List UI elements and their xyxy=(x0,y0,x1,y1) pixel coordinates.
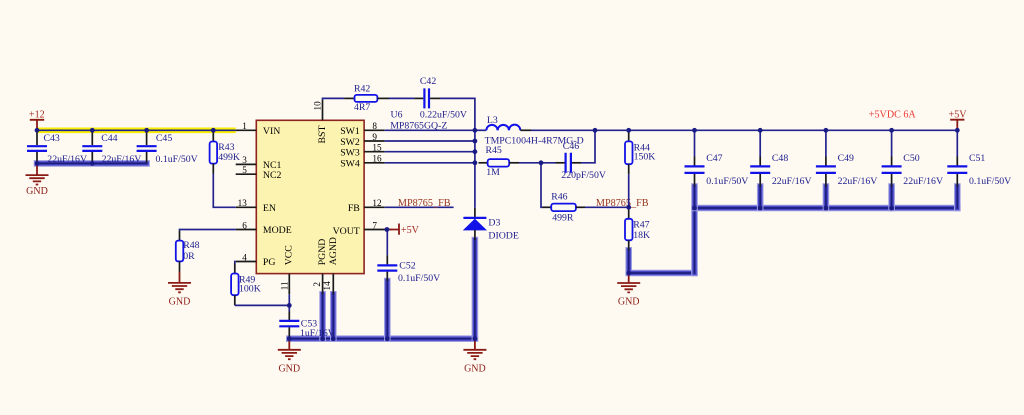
svg-text:SW1: SW1 xyxy=(340,126,360,137)
pin 5 NC2 xyxy=(236,165,282,181)
svg-text:14: 14 xyxy=(322,281,332,291)
svg-text:C47: C47 xyxy=(706,153,722,164)
wire R44 to FB node xyxy=(628,174,630,207)
+12 input net yellow highlight wire xyxy=(36,128,235,134)
svg-text:R47: R47 xyxy=(633,220,649,231)
GND thick: C50 stub xyxy=(888,187,895,209)
node C43 bottom bus xyxy=(35,161,40,166)
node AGND bus xyxy=(331,336,336,341)
svg-text:FB: FB xyxy=(348,203,360,214)
wire R42 to C42 xyxy=(389,97,414,99)
pin 4 PG xyxy=(236,252,276,268)
pin 3 NC1 xyxy=(236,155,282,171)
ground G5 under R47 xyxy=(617,275,640,308)
svg-text:1M: 1M xyxy=(486,167,500,178)
ground G1 under C43 xyxy=(26,166,49,198)
wire FB pin xyxy=(385,206,454,208)
wire SW1 to riser xyxy=(385,129,475,131)
ground G2 under R48 xyxy=(168,272,191,308)
svg-text:D3: D3 xyxy=(488,218,500,229)
pin 6 MODE xyxy=(236,220,292,236)
svg-text:10: 10 xyxy=(312,101,322,111)
capacitor C52 xyxy=(377,255,440,284)
GND net thick highlight: left bus xyxy=(37,160,147,167)
ground G4 under D3 column xyxy=(463,341,486,374)
ground G3 under bottom bus left xyxy=(278,341,301,374)
node SW2 riser xyxy=(473,139,478,144)
svg-text:GND: GND xyxy=(169,297,191,308)
node C49 top xyxy=(824,128,829,133)
capacitor C45 xyxy=(137,131,198,165)
capacitor C48 xyxy=(750,130,811,187)
resistor R46 xyxy=(543,192,586,224)
node C45 top xyxy=(144,128,149,133)
node C51/+5V xyxy=(955,128,960,133)
pin 1 VIN xyxy=(236,121,281,137)
svg-text:150K: 150K xyxy=(634,151,656,162)
svg-text:4R7: 4R7 xyxy=(354,102,370,113)
node D3 bus xyxy=(473,336,478,341)
svg-text:1: 1 xyxy=(242,121,247,131)
svg-text:SW4: SW4 xyxy=(340,158,360,169)
svg-text:GND: GND xyxy=(618,297,640,308)
svg-text:499K: 499K xyxy=(218,152,240,163)
svg-text:C49: C49 xyxy=(838,153,854,164)
svg-text:GND: GND xyxy=(278,363,300,374)
node C48 top xyxy=(758,128,763,133)
wire C46 node down to R46 xyxy=(541,163,543,208)
wire R45 to C46 node xyxy=(519,162,556,164)
power port +5V top right xyxy=(949,110,968,131)
svg-text:22uF/16V: 22uF/16V xyxy=(102,154,142,165)
svg-text:GND: GND xyxy=(26,186,48,197)
wire VCC column xyxy=(288,294,290,311)
svg-text:8: 8 xyxy=(372,121,377,131)
svg-text:VIN: VIN xyxy=(263,126,280,137)
svg-text:DIODE: DIODE xyxy=(488,231,518,242)
resistor R43 xyxy=(210,131,240,173)
svg-text:R42: R42 xyxy=(354,83,370,94)
wire +12 rail xyxy=(36,129,235,131)
wire PG to R49 xyxy=(234,262,237,264)
GND thick: C51 stub xyxy=(954,187,961,209)
wire SW3 to riser xyxy=(385,151,475,153)
svg-text:MP8765_FB: MP8765_FB xyxy=(596,198,649,209)
node C52 bus xyxy=(385,336,390,341)
svg-text:2: 2 xyxy=(312,282,322,287)
svg-text:7: 7 xyxy=(372,220,377,230)
power port +12 xyxy=(29,110,45,131)
node R44 top xyxy=(626,128,631,133)
svg-text:22uF/16V: 22uF/16V xyxy=(47,154,87,165)
svg-text:11: 11 xyxy=(279,281,289,290)
svg-text:22uF/16V: 22uF/16V xyxy=(903,176,943,187)
svg-text:NC2: NC2 xyxy=(263,170,282,181)
IC U6 body xyxy=(256,120,364,273)
node R43 top xyxy=(211,128,216,133)
svg-text:PG: PG xyxy=(263,257,276,268)
node C44 top xyxy=(90,128,95,133)
capacitor C44 xyxy=(82,131,141,165)
svg-text:SW2: SW2 xyxy=(340,137,360,148)
wire VOUT down to C52 xyxy=(386,230,388,256)
diode D3 xyxy=(463,208,518,242)
pin 13 EN xyxy=(236,198,276,214)
pin 14 AGND xyxy=(322,237,339,294)
resistor R42 xyxy=(344,83,389,113)
node +12/C43 xyxy=(35,128,40,133)
node C44 bottom bus xyxy=(90,161,95,166)
GND thick: C48 stub xyxy=(757,187,764,209)
svg-text:EN: EN xyxy=(263,203,276,214)
svg-text:VOUT: VOUT xyxy=(333,226,360,237)
svg-text:22uF/16V: 22uF/16V xyxy=(772,176,812,187)
capacitor C42 xyxy=(414,76,467,120)
pin 9 SW2 xyxy=(340,132,385,148)
U6 designator and value xyxy=(390,110,447,132)
node R47 bottom xyxy=(626,271,631,276)
node FB junction xyxy=(626,205,631,210)
pin 7 VOUT xyxy=(333,220,385,237)
node C47 top xyxy=(692,128,697,133)
resistor R47 xyxy=(625,207,650,250)
capacitor C43 xyxy=(27,131,87,165)
GND thick: R47 bottom and link to output cap bus xyxy=(629,250,695,273)
pin 16 SW4 xyxy=(340,154,385,170)
svg-text:C42: C42 xyxy=(420,76,436,87)
svg-text:+5V: +5V xyxy=(949,110,968,121)
GND thick: D3 column xyxy=(472,240,479,339)
power port +5V at VOUT xyxy=(390,224,420,237)
pin 11 VCC xyxy=(279,245,294,294)
wire SW riser down to D3 xyxy=(474,130,476,208)
svg-text:AGND: AGND xyxy=(328,237,339,265)
wire C46 to rail riser xyxy=(581,130,595,163)
node SW3 riser xyxy=(473,149,478,154)
capacitor C49 xyxy=(816,130,877,187)
node SW1/L3 riser xyxy=(473,128,478,133)
svg-text:6: 6 xyxy=(242,220,247,230)
svg-text:0.1uF/50V: 0.1uF/50V xyxy=(398,273,440,284)
svg-text:0.1uF/50V: 0.1uF/50V xyxy=(706,176,748,187)
svg-text:R48: R48 xyxy=(183,240,199,251)
pin 12 FB xyxy=(348,198,385,214)
svg-text:4: 4 xyxy=(242,252,247,262)
node VOUT/+5V xyxy=(385,227,390,232)
svg-text:VCC: VCC xyxy=(283,245,294,265)
node R45/C46 xyxy=(539,160,544,165)
svg-text:L3: L3 xyxy=(487,115,498,126)
svg-text:R46: R46 xyxy=(551,192,567,203)
GND net thick highlight: bottom bus xyxy=(289,335,475,342)
resistor R45 xyxy=(479,145,520,178)
GND thick: PGND column xyxy=(319,294,326,338)
svg-text:C43: C43 xyxy=(44,133,60,144)
svg-text:C50: C50 xyxy=(903,153,919,164)
capacitor C51 xyxy=(947,130,1011,187)
svg-text:22uF/16V: 22uF/16V xyxy=(838,176,878,187)
wire VOUT node xyxy=(385,229,392,231)
svg-text:18K: 18K xyxy=(633,230,650,241)
node C48 bus xyxy=(758,206,763,211)
wire MODE to R48 xyxy=(180,230,236,231)
GND thick: C47 stub xyxy=(691,187,698,209)
resistor R49 xyxy=(231,264,261,306)
node C46 riser top xyxy=(593,128,598,133)
svg-text:C52: C52 xyxy=(399,260,415,271)
svg-text:13: 13 xyxy=(238,198,248,208)
svg-text:0R: 0R xyxy=(183,251,195,262)
svg-text:15: 15 xyxy=(372,143,382,153)
svg-text:+12: +12 xyxy=(29,110,45,121)
svg-text:+5V: +5V xyxy=(401,225,420,236)
wire SW2 to riser xyxy=(385,140,475,142)
pin 10 BST xyxy=(312,100,328,144)
wire R46 to FB node xyxy=(585,206,629,208)
svg-text:16: 16 xyxy=(372,154,382,164)
svg-text:0.22uF/50V: 0.22uF/50V xyxy=(420,110,467,121)
svg-text:220pF/50V: 220pF/50V xyxy=(561,170,606,181)
svg-text:12: 12 xyxy=(372,198,382,208)
svg-text:BST: BST xyxy=(317,126,328,144)
capacitor C50 xyxy=(882,130,943,187)
svg-text:MODE: MODE xyxy=(263,225,292,236)
svg-text:PGND: PGND xyxy=(317,239,328,266)
pin 8 SW1 xyxy=(340,121,385,137)
resistor R44 xyxy=(625,131,655,174)
svg-text:3: 3 xyxy=(242,155,247,165)
GND thick: output cap bus xyxy=(695,208,958,273)
svg-text:C46: C46 xyxy=(563,141,579,152)
node SW4 riser xyxy=(473,160,478,165)
GND thick: C49 stub xyxy=(823,187,830,209)
wire R43 to EN xyxy=(213,174,235,208)
svg-text:GND: GND xyxy=(464,363,486,374)
svg-text:SW3: SW3 xyxy=(340,148,360,159)
GND thick: C52 column xyxy=(384,281,391,339)
svg-text:0.1uF/50V: 0.1uF/50V xyxy=(969,176,1011,187)
svg-text:5: 5 xyxy=(242,165,247,175)
node R49/VCC xyxy=(287,303,292,308)
wire R49 to VCC node xyxy=(235,304,289,306)
svg-text:C44: C44 xyxy=(101,133,117,144)
svg-text:499R: 499R xyxy=(552,213,574,224)
svg-text:C45: C45 xyxy=(156,133,172,144)
svg-text:0.1uF/50V: 0.1uF/50V xyxy=(156,154,198,165)
capacitor C46 xyxy=(556,141,606,181)
GND thick: AGND column xyxy=(330,294,337,338)
wire C42 to SW riser xyxy=(440,98,475,130)
svg-text:100K: 100K xyxy=(239,283,261,294)
svg-text:1uF/16V: 1uF/16V xyxy=(300,328,335,339)
svg-text:U6: U6 xyxy=(391,110,403,121)
svg-text:+5VDC 6A: +5VDC 6A xyxy=(869,110,917,121)
resistor R48 xyxy=(176,231,200,272)
svg-text:C48: C48 xyxy=(772,153,788,164)
node PGND bus xyxy=(320,336,325,341)
node C50 top xyxy=(889,128,894,133)
node C49 bus xyxy=(824,206,829,211)
svg-text:MP8765_FB: MP8765_FB xyxy=(398,198,451,209)
svg-text:R45: R45 xyxy=(486,145,502,156)
wire SW4 to riser xyxy=(385,162,475,164)
node C53 bus xyxy=(287,336,292,341)
capacitor C47 xyxy=(685,130,749,187)
pin 15 SW3 xyxy=(340,143,385,159)
capacitor C53 xyxy=(279,312,335,340)
svg-text:9: 9 xyxy=(372,132,377,142)
wire L3 to +5V rail xyxy=(531,129,957,131)
wire BST to R42 xyxy=(323,98,345,99)
pin 2 PGND xyxy=(312,239,328,295)
node C47 bus xyxy=(692,206,697,211)
svg-text:C51: C51 xyxy=(969,153,985,164)
node C50 bus xyxy=(889,206,894,211)
inductor L3 xyxy=(475,115,584,146)
